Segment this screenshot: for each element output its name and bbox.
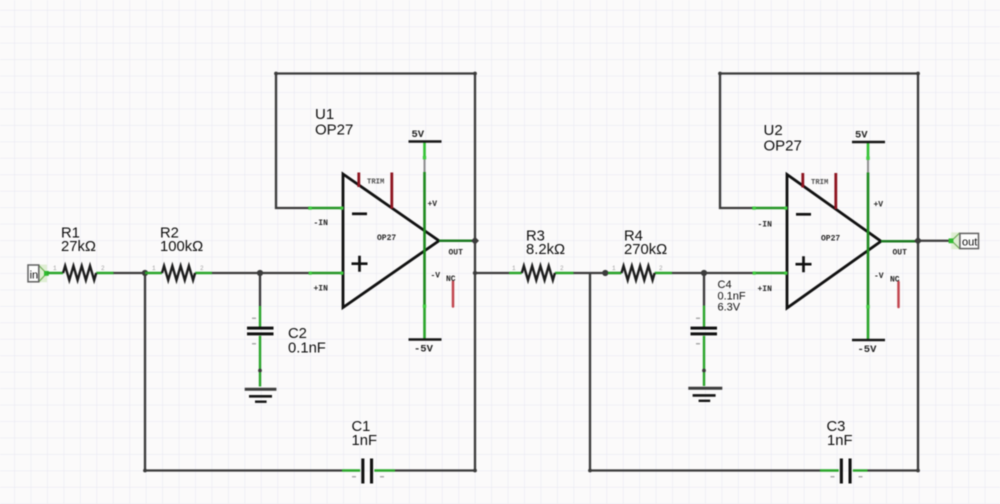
op-amp U2 <box>787 175 881 309</box>
svg-text:NC: NC <box>890 276 900 285</box>
U2 -IN pin <box>752 208 787 230</box>
pin end caps U2 <box>784 207 787 210</box>
svg-text:+V: +V <box>428 200 438 209</box>
node C (R3/R4 junction) <box>602 270 608 276</box>
svg-text:0.1nF: 0.1nF <box>288 340 326 356</box>
svg-text:U1: U1 <box>315 106 334 123</box>
svg-text:OUT: OUT <box>449 249 464 258</box>
wire: main horizontal stage 1 <box>113 273 310 306</box>
svg-text:-V: -V <box>874 272 884 281</box>
node: stage2 tee <box>473 271 477 275</box>
power symbol -5V (U1) <box>409 340 442 356</box>
U1 -IN pin <box>308 208 343 228</box>
power symbol 5V (U1) <box>409 129 442 142</box>
svg-text:OP27: OP27 <box>821 235 840 244</box>
U1 TRIM pins <box>359 173 392 209</box>
svg-text:-IN: -IN <box>314 219 329 228</box>
wire: feedback loop top (U2) <box>720 74 918 241</box>
connector: in <box>28 265 49 283</box>
svg-text:270kΩ: 270kΩ <box>624 242 667 258</box>
svg-text:6.3V: 6.3V <box>718 302 741 314</box>
svg-text:NC: NC <box>446 275 456 284</box>
wire endpoint dots stage1 <box>274 72 278 76</box>
power symbol 5V (U2) <box>852 130 885 143</box>
U1 power rail (+V/-V) <box>423 142 441 340</box>
wire: bottom loop stage 1 <box>145 241 475 471</box>
svg-text:OP27: OP27 <box>315 122 353 139</box>
U2 label <box>764 122 802 155</box>
svg-text:1nF: 1nF <box>827 433 853 449</box>
svg-text:-IN: -IN <box>758 221 773 230</box>
capacitor C2 <box>247 306 326 387</box>
wire: bottom loop stage 2 <box>590 241 918 471</box>
svg-text:100kΩ: 100kΩ <box>160 239 203 255</box>
node: C4 wire bendpoint <box>702 369 706 373</box>
svg-text:OP27: OP27 <box>764 138 802 155</box>
svg-text:1: 1 <box>612 265 616 272</box>
resistor R1 <box>47 226 114 281</box>
svg-text:-5V: -5V <box>858 344 878 356</box>
node D (R4/+IN/C4 junction) <box>701 270 707 276</box>
svg-text:8.2kΩ: 8.2kΩ <box>526 242 565 258</box>
capacitor C4 <box>691 279 746 386</box>
svg-text:+V: +V <box>874 201 884 210</box>
op-amp U1 <box>343 174 439 308</box>
U2 NC pin <box>890 276 900 308</box>
node: OUT junction (U1) <box>471 237 479 245</box>
svg-text:in: in <box>30 270 39 282</box>
svg-text:2: 2 <box>560 265 564 272</box>
svg-text:C4: C4 <box>718 279 732 291</box>
U2 +IN pin <box>753 273 788 294</box>
wire endpoint dots stage2 <box>718 72 722 76</box>
capacitor C1 <box>342 419 395 483</box>
ground (C4) <box>688 388 722 401</box>
svg-text:2: 2 <box>101 265 105 272</box>
node: OUT junction (U2) <box>914 237 922 245</box>
svg-text:-V: -V <box>431 272 441 281</box>
U1 NC pin <box>446 275 456 307</box>
wire: feedback loop top (U1) <box>276 74 475 241</box>
svg-text:U2: U2 <box>764 122 783 139</box>
node A (R1/R2 junction) <box>142 270 148 276</box>
svg-text:1: 1 <box>53 265 57 272</box>
wire: main horizontal stage 2 <box>475 273 753 306</box>
svg-text:2: 2 <box>200 265 204 272</box>
U2 power rail (+V/-V) <box>866 142 884 340</box>
connector: out <box>949 232 979 249</box>
resistor R3 <box>509 229 574 281</box>
svg-text:1: 1 <box>512 265 516 272</box>
svg-text:2: 2 <box>659 265 663 272</box>
power symbol -5V (U2) <box>852 340 885 356</box>
svg-text:1nF: 1nF <box>352 433 378 449</box>
resistor R4 <box>608 229 672 281</box>
U1 OUT pin <box>439 241 475 258</box>
U1 label <box>315 106 353 139</box>
svg-text:OUT: OUT <box>893 249 908 258</box>
node: C2 wire bendpoint <box>258 369 262 373</box>
svg-text:5V: 5V <box>412 129 425 141</box>
svg-text:+IN: +IN <box>314 285 329 294</box>
svg-text:TRIM: TRIM <box>367 179 384 187</box>
U1 +IN pin <box>310 273 343 294</box>
pin end caps U1 <box>340 207 343 210</box>
capacitor C3 <box>820 419 868 483</box>
svg-text:27kΩ: 27kΩ <box>61 239 96 255</box>
svg-text:0.1nF: 0.1nF <box>718 290 746 302</box>
svg-text:OP27: OP27 <box>377 234 396 243</box>
svg-text:5V: 5V <box>855 130 868 142</box>
svg-text:1: 1 <box>152 265 156 272</box>
svg-text:TRIM: TRIM <box>811 179 828 187</box>
wire: out <box>918 240 951 242</box>
resistor R2 <box>145 226 212 281</box>
U2 OUT pin <box>881 241 918 257</box>
U2 TRIM pins <box>803 173 836 209</box>
node B (R2/+IN/C2 junction) <box>257 270 263 276</box>
svg-text:-5V: -5V <box>414 344 434 356</box>
ground (C2) <box>245 389 277 401</box>
svg-text:out: out <box>962 237 977 249</box>
svg-text:+IN: +IN <box>758 285 773 294</box>
